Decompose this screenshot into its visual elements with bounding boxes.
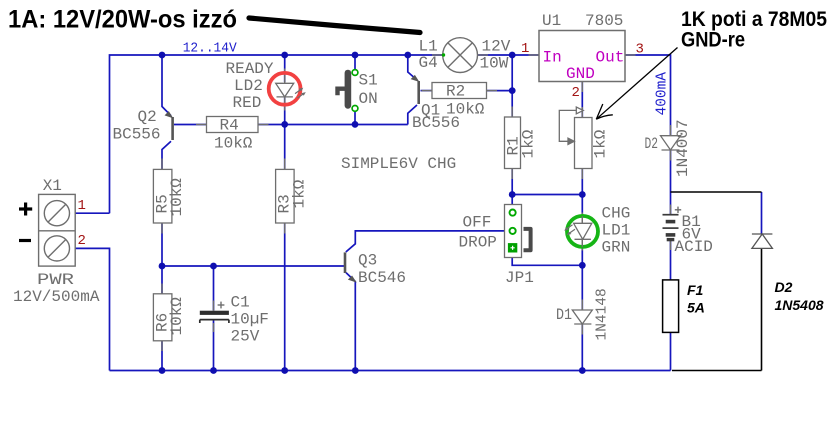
wire LD1 top [581,195,583,217]
switch S1 [338,70,378,112]
wire S1 bottom [354,111,356,125]
wire Q2 base to R4 [174,124,207,126]
svg-text:F1: F1 [687,282,704,298]
junction R2 / R1 column [509,87,516,94]
svg-text:12V/500mA: 12V/500mA [13,288,100,306]
svg-text:LD2: LD2 [234,77,263,95]
svg-text:12V: 12V [482,38,511,56]
svg-text:C1: C1 [231,294,250,312]
svg-text:25V: 25V [231,328,260,346]
wire mid horizontal to Q3 base [162,265,345,267]
svg-text:7805: 7805 [585,12,623,30]
connector X1 [39,194,76,266]
battery B1 [663,215,679,240]
junction S1 / top rail [352,52,359,59]
junction Q3 emitter / bottom rail [352,367,359,374]
wire X1 pin1 [75,212,109,214]
junction R1 bottom / JP1 [509,191,516,198]
transistor Q2 [113,108,173,144]
svg-text:OFF: OFF [463,214,492,232]
junction pot bottom / LD1 [579,191,586,198]
svg-text:10W: 10W [480,55,509,73]
added branch wires (black) [671,192,762,371]
svg-text:1kΩ: 1kΩ [520,129,538,158]
potentiometer 1k [559,107,592,169]
resistor R4 [207,117,259,133]
svg-text:LD1: LD1 [602,222,631,240]
lamp stubs [432,54,443,56]
svg-text:1N4007: 1N4007 [674,119,692,177]
fuse F1 [663,280,679,333]
resistor R2 [432,83,487,99]
svg-text:1A: 12V/20W-os izzó: 1A: 12V/20W-os izzó [8,6,237,34]
svg-text:1: 1 [521,41,529,57]
svg-text:BC556: BC556 [113,126,161,144]
diode D2 1N5408 [752,234,773,248]
wire C1 top [213,266,215,311]
wire R3 top [284,124,286,169]
gray pin stubs [162,55,671,351]
LED LD2 red [226,60,306,112]
resistor R6 [153,294,172,341]
wire Q3 collector to JP1 middle pin [346,231,505,252]
svg-text:3: 3 [636,42,644,58]
svg-text:PWR: PWR [37,271,75,289]
svg-text:D1: D1 [556,306,572,324]
svg-text:12..14V: 12..14V [183,41,238,57]
wire Q2 emitter column [162,55,171,116]
wire R2 right [487,90,513,92]
junction S1 bottom node [352,121,359,128]
wire LD1 bottom [581,247,583,265]
pot stubs [581,107,583,118]
wire R1 bottom [511,169,513,195]
wire X1 pin2 to bottom rail [75,248,109,370]
R6 stubs [161,284,163,294]
svg-text:D2: D2 [645,135,659,153]
svg-text:READY: READY [226,60,274,78]
junction R5 / R6 node [159,263,166,270]
wire fuse to bottom rail [670,332,672,370]
svg-text:Out: Out [596,49,625,67]
wire blue segment of added D2 branch [761,192,763,234]
R5 stubs [161,159,163,170]
R2 stubs [422,90,433,92]
svg-text:DROP: DROP [459,234,497,252]
wire R3 bottom to bottom rail [284,223,286,371]
svg-text:G4: G4 [419,54,438,72]
svg-text:10kΩ: 10kΩ [446,101,485,119]
svg-text:R2: R2 [446,83,465,101]
svg-text:Q2: Q2 [138,108,157,126]
junction C1 / bottom rail [210,367,217,374]
svg-text:X1: X1 [43,177,62,195]
junction LD2 / top rail [281,52,288,59]
svg-text:10µF: 10µF [231,311,269,329]
wire LED LD2 column bottom [284,97,286,124]
junction D1 / bottom rail [579,367,586,374]
wire D1 bottom [581,324,583,371]
svg-text:CHG: CHG [602,205,631,223]
diode D2 1N4007 [661,136,681,150]
junction R1 / top rail [509,52,516,59]
wire U1 Out to 400mA column [625,55,671,136]
svg-text:In: In [543,49,562,67]
jumper shunt bracket [524,229,531,250]
wire Q1 emitter [408,55,417,80]
junction R4-LD2-R3 node [281,121,288,128]
wire JP1 bottom pin to LD1 node [512,258,582,266]
svg-text:D2: D2 [775,279,793,295]
wire R6 bottom [161,341,163,371]
svg-text:RED: RED [233,94,262,112]
svg-text:1kΩ: 1kΩ [291,179,309,208]
svg-text:10kΩ: 10kΩ [214,135,253,153]
svg-text:GND-re: GND-re [681,29,745,52]
junction R3 / bottom rail [281,367,288,374]
battery stub [670,205,672,215]
IC U1 7805 [539,31,625,82]
svg-text:U1: U1 [542,12,561,30]
svg-text:JP1: JP1 [505,269,534,287]
svg-text:400mA: 400mA [655,72,671,116]
svg-text:GND: GND [566,65,595,83]
wire S1 top [354,55,356,70]
C1 stubs [213,301,215,311]
svg-text:5A: 5A [687,300,705,316]
wire JP1 top pin [511,195,513,205]
U1 pin stubs [529,54,540,56]
wire battery to fuse [670,241,672,280]
R3 stubs [284,159,286,170]
svg-text:1: 1 [78,198,86,214]
svg-text:1kΩ: 1kΩ [592,129,610,158]
diode D1 1N4148 [572,310,592,324]
wire pot bottom [581,169,583,195]
transistor Q1 [411,76,460,133]
R1 stubs [511,107,513,118]
lamp L1 [443,38,478,73]
svg-text:ACID: ACID [675,238,713,256]
wire R6 top [161,266,163,294]
transistor Q3 [345,252,406,288]
svg-text:L1: L1 [419,38,438,56]
LD2 stubs [284,69,286,84]
wire C1 bottom [213,320,215,371]
wire Q2 collector to R5 [162,141,171,169]
junction LD1 / D1 / JP1 [579,262,586,269]
wire R1/pot bottom row [512,194,582,196]
svg-text:10kΩ: 10kΩ [168,297,186,336]
plus mark [19,203,32,216]
svg-text:2: 2 [78,233,86,249]
svg-text:ON: ON [359,90,378,108]
svg-text:10kΩ: 10kΩ [168,178,186,217]
wire LED LD2 column top [284,55,286,82]
R4 stubs [196,124,207,126]
svg-text:S1: S1 [359,72,378,90]
wire D1 top [581,265,583,310]
wire top rail 12..14V [110,55,443,213]
junction Q2 emitter / top rail [159,52,166,59]
wire R5 bottom to mid node [161,223,163,266]
svg-text:1N4148: 1N4148 [595,288,611,340]
junction R6 / bottom rail [159,367,166,374]
wire Q1 collector [408,105,417,125]
resistor R1 [505,117,521,169]
D1 stubs [581,300,583,311]
svg-text:BC546: BC546 [358,269,406,287]
wire U1 GND to pot [581,82,583,118]
wire R1 column [511,55,513,117]
capacitor C1 [200,302,229,323]
resistor R5 [153,169,172,223]
wire R4 right / node row y124 [258,124,408,126]
junction C1 top node [210,263,217,270]
resistor R3 [276,169,295,223]
svg-text:R4: R4 [220,117,239,135]
wire 1N4007 to battery [670,150,672,215]
wire lamp right to U1 In [478,54,540,56]
annotation arrow to pot [596,48,677,120]
annotation thick line [249,18,420,33]
svg-text:Q3: Q3 [358,252,377,270]
LD1 stubs [581,213,583,224]
svg-text:SIMPLE6V CHG: SIMPLE6V CHG [341,155,456,173]
junction Q1 emitter / top rail [404,52,411,59]
jumper JP1 [505,205,522,258]
wire Q3 emitter to bottom rail [346,273,355,371]
svg-text:1N5408: 1N5408 [775,297,824,313]
minus mark [19,239,31,242]
svg-text:2: 2 [572,85,580,101]
wire Q1 base to R2 [421,90,433,92]
wire bottom rail [110,370,671,372]
1N4007 stubs [670,125,672,136]
LED LD1 green [564,216,598,247]
svg-text:GRN: GRN [602,239,631,257]
